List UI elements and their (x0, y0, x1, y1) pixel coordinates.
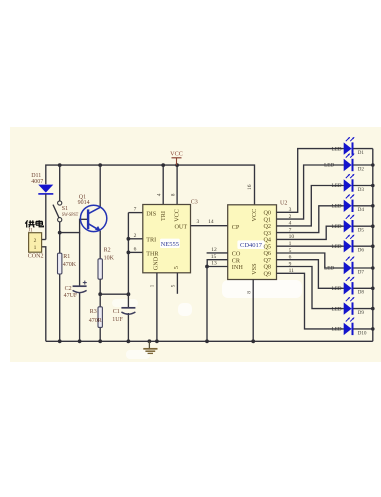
svg-text:D8: D8 (358, 290, 365, 296)
svg-text:THR: THR (146, 251, 159, 258)
svg-text:GND: GND (153, 256, 160, 270)
svg-text:12: 12 (211, 247, 217, 253)
svg-text:LED: LED (332, 327, 342, 333)
svg-text:5: 5 (170, 284, 176, 287)
svg-text:LED: LED (324, 163, 334, 169)
svg-text:C3: C3 (191, 200, 198, 206)
svg-text:D10: D10 (358, 330, 367, 336)
svg-text:NE555: NE555 (161, 241, 179, 248)
svg-text:3: 3 (197, 219, 200, 225)
svg-text:470R: 470R (89, 318, 102, 324)
svg-text:D9: D9 (358, 310, 365, 316)
svg-text:15: 15 (211, 254, 217, 260)
svg-text:VCC: VCC (251, 209, 258, 222)
svg-text:7: 7 (134, 207, 137, 213)
svg-text:16: 16 (247, 184, 253, 190)
svg-text:8: 8 (171, 193, 177, 196)
svg-text:470K: 470K (63, 262, 77, 268)
svg-text:R2: R2 (104, 248, 111, 254)
svg-text:D5: D5 (358, 228, 365, 234)
svg-text:4: 4 (157, 193, 163, 196)
svg-text:2: 2 (34, 238, 37, 244)
svg-text:D11: D11 (31, 173, 41, 179)
svg-text:13: 13 (211, 261, 217, 267)
svg-text:D2: D2 (358, 166, 365, 172)
svg-text:1: 1 (149, 284, 155, 287)
svg-text:LED: LED (332, 183, 342, 189)
svg-text:R1: R1 (63, 254, 70, 260)
svg-text:DIS: DIS (146, 210, 157, 217)
svg-text:8: 8 (246, 291, 252, 294)
svg-text:S1: S1 (62, 206, 68, 212)
svg-text:2: 2 (134, 233, 137, 239)
svg-text:VCC: VCC (170, 151, 183, 158)
svg-text:47UF: 47UF (64, 293, 78, 299)
svg-text:LED: LED (332, 306, 342, 312)
svg-text:CP: CP (232, 224, 240, 231)
svg-text:D4: D4 (358, 207, 365, 213)
svg-text:4007: 4007 (31, 179, 43, 185)
svg-text:5: 5 (173, 266, 180, 269)
svg-text:1: 1 (34, 245, 37, 251)
svg-text:1UF: 1UF (112, 317, 123, 323)
svg-text:LED: LED (324, 266, 334, 272)
svg-text:OUT: OUT (174, 224, 187, 231)
svg-text:D3: D3 (358, 187, 365, 193)
svg-text:D7: D7 (358, 269, 365, 275)
svg-text:LED: LED (332, 204, 342, 210)
svg-text:D6: D6 (358, 248, 365, 254)
svg-text:TRI: TRI (146, 237, 156, 244)
svg-text:C2: C2 (65, 286, 72, 292)
svg-text:Q9: Q9 (263, 271, 271, 278)
svg-text:R3: R3 (90, 309, 97, 315)
svg-text:CD4017: CD4017 (240, 242, 263, 249)
svg-text:10K: 10K (104, 255, 115, 261)
svg-text:LED: LED (332, 146, 342, 152)
svg-text:VSS: VSS (251, 263, 258, 275)
svg-text:LED: LED (332, 286, 342, 292)
svg-text:TRI: TRI (160, 211, 167, 221)
svg-text:C1: C1 (113, 309, 120, 315)
svg-text:SW-SPST: SW-SPST (62, 213, 79, 218)
svg-text:14: 14 (208, 219, 214, 225)
svg-text:VCC: VCC (174, 209, 181, 222)
svg-text:INH: INH (232, 264, 244, 271)
svg-text:9014: 9014 (78, 200, 90, 206)
svg-text:LED: LED (332, 224, 342, 230)
svg-text:6: 6 (134, 246, 137, 252)
svg-text:U2: U2 (280, 200, 287, 206)
svg-text:LED: LED (332, 244, 342, 250)
svg-text:CON2: CON2 (28, 254, 44, 260)
svg-text:D1: D1 (358, 150, 365, 156)
svg-text:J1: J1 (28, 228, 33, 233)
